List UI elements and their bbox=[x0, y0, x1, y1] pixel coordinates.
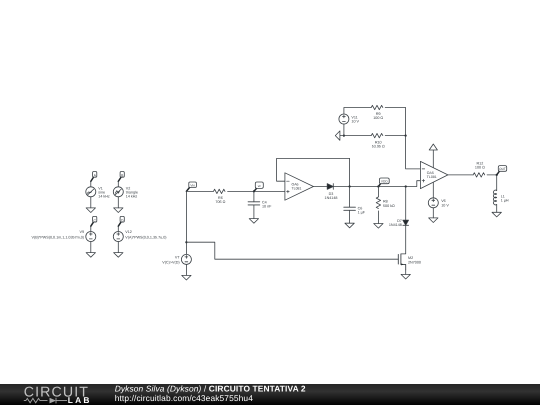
wire R9 to right vertical bbox=[385, 108, 405, 136]
wire A to V1 bbox=[90, 181, 92, 186]
transistor M2 bbox=[398, 254, 405, 270]
svg-text:100 Ω: 100 Ω bbox=[475, 166, 485, 170]
ground under V2 bbox=[114, 208, 123, 213]
wire junction to L1 bbox=[496, 175, 498, 191]
svg-text:10 V: 10 V bbox=[441, 203, 449, 207]
node OUT flag bbox=[497, 166, 507, 175]
node: vc junction bbox=[253, 190, 255, 192]
wire Vin to R6 bbox=[186, 190, 213, 192]
voltage source V9 bbox=[86, 232, 96, 242]
OA6 labels bbox=[292, 182, 302, 190]
ground under C4 bbox=[249, 219, 258, 224]
wire V1 to ground bbox=[90, 197, 92, 208]
svg-text:OUT: OUT bbox=[499, 167, 506, 171]
ground under V6 bbox=[429, 218, 438, 223]
V6 labels bbox=[441, 199, 449, 207]
ground under R8 bbox=[374, 224, 383, 229]
M2 labels bbox=[408, 256, 421, 264]
OA6 feedback loop wire bbox=[277, 158, 350, 186]
svg-text:10 nF: 10 nF bbox=[262, 205, 272, 209]
svg-text:706 Ω: 706 Ω bbox=[215, 200, 225, 204]
svg-text:TL081: TL081 bbox=[292, 186, 302, 190]
svg-text:LAB: LAB bbox=[68, 395, 92, 405]
wire V11 bottom to junction bbox=[343, 124, 345, 135]
wire OA6 output to D3 bbox=[313, 186, 327, 188]
wire C to V9 bbox=[90, 226, 92, 231]
node: D7 junction bbox=[405, 185, 407, 187]
rotated ground at V11 bbox=[335, 131, 344, 140]
voltage source V11 bbox=[339, 114, 349, 124]
voltage source V6 bbox=[428, 198, 438, 208]
resistor R10 bbox=[371, 133, 383, 137]
resistor R8 bbox=[376, 197, 380, 209]
wire V2 to ground bbox=[117, 197, 119, 208]
svg-text:Vin: Vin bbox=[190, 183, 195, 187]
node: C6 junction bbox=[349, 185, 351, 187]
V11 labels bbox=[351, 115, 359, 123]
ground under V9 bbox=[86, 253, 95, 258]
resistor R6 bbox=[213, 189, 225, 193]
V2 labels bbox=[126, 186, 138, 198]
svg-text:500 kΩ: 500 kΩ bbox=[383, 204, 395, 208]
node: R8 junction bbox=[377, 185, 379, 187]
svg-text:100 Ω: 100 Ω bbox=[373, 116, 383, 120]
ground under C6 bbox=[345, 223, 354, 228]
wire C6 to ground bbox=[349, 210, 351, 223]
R12 labels bbox=[475, 162, 485, 170]
wire R12 to OUT junction bbox=[487, 174, 497, 176]
wire R6 to opamp + input bbox=[228, 190, 285, 192]
node VDD flag bbox=[378, 178, 389, 187]
wire C4 to ground bbox=[253, 205, 255, 219]
logo schematic squiggle bbox=[24, 398, 67, 404]
R8 labels bbox=[383, 200, 395, 208]
svg-text:14 kHz: 14 kHz bbox=[98, 194, 110, 198]
wire junction to R10 bbox=[344, 135, 371, 137]
node A flag bbox=[91, 172, 97, 182]
V1 labels bbox=[98, 186, 110, 198]
wire L1 to ground bbox=[496, 205, 498, 213]
V9 labels bbox=[32, 230, 84, 240]
svg-text:vc: vc bbox=[258, 184, 262, 188]
wire B to V2 bbox=[117, 181, 119, 186]
diode D7 bbox=[403, 220, 409, 225]
wire R8 to ground bbox=[377, 211, 379, 224]
wire V6 to ground bbox=[432, 208, 434, 218]
wire gate run from VT junction bbox=[186, 242, 398, 259]
wire junction down to OA5 - input bbox=[406, 136, 421, 169]
wire Vin corner down to VT junction bbox=[185, 191, 187, 242]
svg-text:53.95 Ω: 53.95 Ω bbox=[372, 145, 385, 149]
M2 body arrow bbox=[401, 263, 403, 265]
OA5 labels bbox=[427, 171, 437, 179]
wire D3 to OA5 + input jog bbox=[333, 181, 420, 187]
voltage source V12 bbox=[113, 232, 123, 242]
C6 labels bbox=[358, 207, 366, 215]
wire OA5 output to R12 bbox=[448, 174, 473, 176]
footer bar bbox=[0, 384, 540, 405]
node: OUT junction bbox=[496, 174, 498, 176]
R6 labels bbox=[215, 196, 225, 204]
wire R10 to right vertical bbox=[385, 135, 405, 137]
svg-text:2N7000: 2N7000 bbox=[408, 260, 421, 264]
node Vin flag bbox=[186, 182, 196, 191]
node: VT top junction bbox=[185, 241, 187, 243]
OA6 input signs bbox=[287, 181, 290, 193]
node: V11 gnd junction bbox=[343, 135, 345, 137]
ground under L1 bbox=[492, 212, 501, 217]
ground under VT bbox=[182, 275, 191, 280]
svg-text:V9: V9 bbox=[79, 230, 84, 234]
V12 labels bbox=[125, 230, 166, 240]
inductor L1 bbox=[493, 190, 496, 205]
ground under M2 bbox=[401, 274, 410, 279]
resistor R9 bbox=[371, 105, 383, 109]
svg-text:14 kHz: 14 kHz bbox=[126, 194, 138, 198]
wire D to V12 bbox=[117, 226, 119, 231]
svg-text:VT: VT bbox=[175, 255, 180, 259]
node B flag bbox=[118, 172, 124, 182]
ground under V12 bbox=[114, 253, 123, 258]
ground under V1 bbox=[86, 208, 95, 213]
VT labels bbox=[162, 255, 180, 264]
op-amp OA5 bbox=[420, 161, 448, 188]
OA5 input signs bbox=[422, 169, 425, 182]
voltage source V1 (sine) bbox=[86, 187, 96, 197]
node C flag bbox=[91, 216, 97, 226]
D7 labels bbox=[389, 219, 402, 227]
wire D7 to M2 drain bbox=[401, 225, 406, 254]
wire V12 to ground bbox=[117, 242, 119, 253]
D3 labels bbox=[325, 192, 338, 200]
L1 labels bbox=[501, 194, 509, 202]
R9 labels bbox=[373, 112, 383, 120]
R10 labels bbox=[372, 141, 385, 149]
logo diode glyph bbox=[50, 398, 57, 404]
op-amp OA6 bbox=[285, 173, 314, 200]
wire junction to C4 bbox=[253, 191, 255, 201]
diode D3 bbox=[327, 184, 333, 190]
svg-text:http://circuitlab.com/c43eak57: http://circuitlab.com/c43eak5755hu4 bbox=[115, 393, 254, 403]
wire VT to ground bbox=[185, 265, 187, 276]
node: R9/R10 junction bbox=[405, 135, 407, 137]
wire V9 to ground bbox=[90, 242, 92, 253]
wire V11 top to R9 bbox=[344, 108, 371, 114]
node D flag bbox=[118, 216, 124, 226]
svg-text:1N4148: 1N4148 bbox=[389, 223, 402, 227]
wire VT to junction bbox=[185, 242, 187, 254]
voltage source VT bbox=[181, 254, 191, 264]
svg-text:1N4148: 1N4148 bbox=[325, 196, 338, 200]
svg-text:1 µH: 1 µH bbox=[501, 199, 509, 203]
C4 labels bbox=[262, 201, 272, 209]
svg-text:1 µF: 1 µF bbox=[358, 211, 366, 215]
wire junction to R8 bbox=[377, 187, 379, 197]
resistor R12 bbox=[473, 173, 485, 177]
svg-text:V(A)*PWS(0,0,1,35.7u,0): V(A)*PWS(0,0,1,35.7u,0) bbox=[125, 236, 166, 240]
OA5 supply arrow bbox=[429, 144, 437, 150]
svg-text:10 V: 10 V bbox=[351, 120, 359, 124]
OA5 supply rail bbox=[432, 150, 434, 198]
svg-text:TL081: TL081 bbox=[427, 175, 437, 179]
capacitor C6 bbox=[344, 207, 356, 210]
node vc flag bbox=[254, 182, 263, 191]
svg-text:V12: V12 bbox=[125, 230, 132, 234]
svg-text:V(C)>V(D): V(C)>V(D) bbox=[162, 260, 179, 264]
svg-text:V(B)*PWS(0,0.1m,1,1.0357m,0): V(B)*PWS(0,0.1m,1,1.0357m,0) bbox=[32, 236, 84, 240]
voltage source V2 (triangle) bbox=[113, 187, 123, 197]
capacitor C4 bbox=[248, 202, 260, 205]
svg-text:VDD: VDD bbox=[381, 180, 388, 184]
wire junction to D7 bbox=[405, 187, 407, 221]
wire M2 source to ground bbox=[405, 270, 407, 275]
wire junction to C6 bbox=[349, 187, 351, 208]
